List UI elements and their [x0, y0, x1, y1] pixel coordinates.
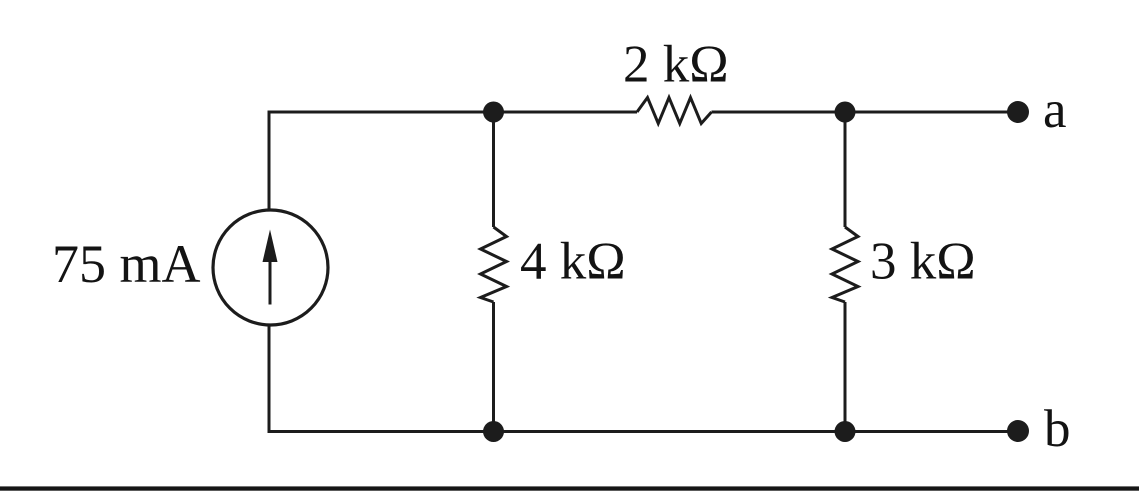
- node junction dot 4 (bottom of 3k): [835, 421, 856, 442]
- svg-text:4 kΩ: 4 kΩ: [520, 233, 626, 291]
- svg-text:75 mA: 75 mA: [52, 234, 201, 294]
- resistor R3 3 kOhm (vertical zigzag): [832, 227, 858, 302]
- terminal b dot: [1007, 420, 1029, 442]
- node junction dot 2 (top of 3k): [835, 102, 856, 123]
- wire top middle (node 1 to 2k resistor): [494, 111, 638, 114]
- wire top (2k resistor to node 2): [712, 111, 846, 114]
- wire branch 2 lower (3k resistor down to bottom wire): [844, 302, 847, 432]
- wire left vertical upper (top wire down to current source): [268, 111, 271, 210]
- svg-text:2 kΩ: 2 kΩ: [623, 36, 729, 94]
- bottom rule bar: [0, 486, 1139, 490]
- wire branch 2 upper (node 2 down to 3k resistor): [844, 112, 847, 227]
- current source arrow head: [263, 230, 278, 263]
- wire branch 1 lower (4k resistor down to bottom wire): [492, 302, 495, 432]
- resistor R2 4 kOhm (vertical zigzag): [481, 227, 507, 302]
- wire branch 1 upper (node 1 down to 4k resistor): [492, 112, 495, 227]
- terminal a dot: [1007, 101, 1029, 123]
- wire top right (node 2 to terminal a): [845, 111, 1018, 114]
- node junction dot 3 (bottom of 4k): [483, 421, 504, 442]
- svg-text:3 kΩ: 3 kΩ: [870, 233, 976, 291]
- wire bottom horizontal: [268, 430, 1018, 433]
- svg-text:a: a: [1043, 81, 1067, 139]
- wire top-left horizontal (source top to node 1): [268, 111, 494, 114]
- resistor R1 2 kOhm (horizontal zigzag): [637, 98, 712, 124]
- svg-text:b: b: [1044, 400, 1071, 458]
- node junction dot 1 (top of 4k): [483, 102, 504, 123]
- current source arrow shaft: [269, 258, 272, 305]
- wire left vertical lower (current source to bottom wire): [268, 326, 271, 433]
- current source I1 circle: [213, 210, 328, 325]
